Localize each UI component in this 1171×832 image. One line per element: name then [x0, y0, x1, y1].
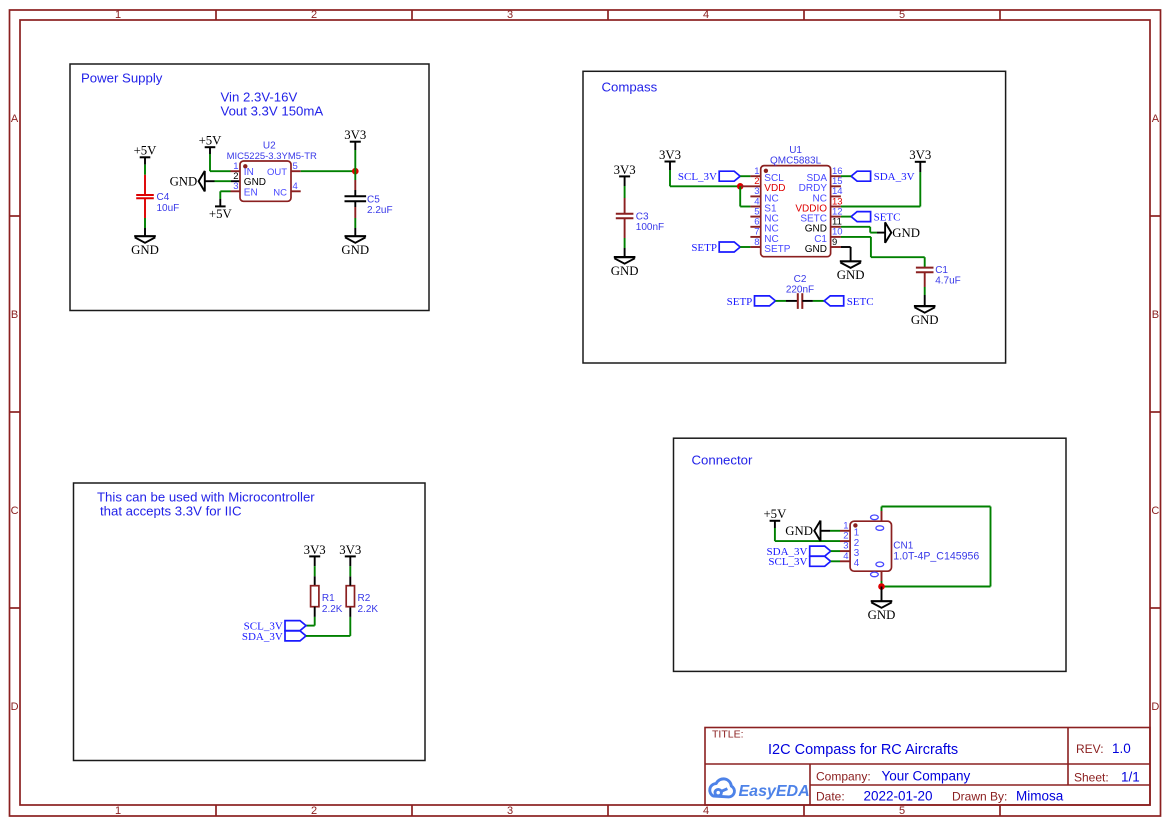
svg-text:Drawn By:: Drawn By: — [952, 790, 1007, 804]
svg-text:SDA_3V: SDA_3V — [242, 631, 283, 643]
svg-text:1.0T-4P_C145956: 1.0T-4P_C145956 — [893, 551, 979, 563]
wire 3V3 to U1 VDDIO — [841, 172, 920, 207]
svg-text:1.0: 1.0 — [1112, 741, 1131, 756]
svg-text:5: 5 — [899, 9, 905, 21]
svg-text:C: C — [1151, 505, 1159, 517]
svg-text:+5V: +5V — [134, 144, 158, 158]
svg-text:OUT: OUT — [267, 167, 287, 178]
ground GND (C3) — [611, 257, 639, 278]
ground GND (CN1 pin1) — [785, 521, 820, 542]
svg-text:that accepts 3.3V for IIC: that accepts 3.3V for IIC — [100, 503, 242, 518]
svg-text:SETP: SETP — [691, 242, 717, 254]
capacitor C5 2.2uF — [345, 180, 393, 218]
title block frame — [705, 728, 1150, 806]
svg-text:EN: EN — [244, 187, 258, 198]
svg-text:Mimosa: Mimosa — [1016, 789, 1064, 804]
ground GND (U1 pin9) — [837, 261, 865, 282]
annotation: Power Supply — [81, 71, 163, 86]
svg-text:2: 2 — [311, 9, 317, 21]
svg-text:I2C Compass for RC Aircrafts: I2C Compass for RC Aircrafts — [768, 742, 958, 758]
net flag SDA_3V (CN1 pin3) — [767, 546, 831, 558]
title block Date / Drawn By — [816, 789, 1064, 804]
wire SCL_3V to U1 — [740, 175, 750, 177]
ruler row labels — [11, 113, 1160, 713]
svg-text:8: 8 — [754, 237, 759, 248]
svg-text:220nF: 220nF — [786, 285, 814, 296]
svg-text:4.7uF: 4.7uF — [935, 276, 961, 287]
wire U1 GND pin11 — [841, 227, 885, 233]
svg-text:C3: C3 — [636, 211, 649, 222]
capacitor C3 100nF — [616, 198, 664, 238]
wire node to U1 S1 — [740, 186, 750, 206]
net flag SETC (C2 right) — [824, 296, 873, 308]
svg-text:EasyEDA: EasyEDA — [739, 783, 810, 800]
annotation: Connector — [692, 453, 753, 468]
EasyEDA logo — [710, 779, 810, 800]
wire C5 to GND — [354, 218, 356, 236]
svg-text:3V3: 3V3 — [909, 148, 931, 162]
node junction (CN1 pad/GND) — [878, 583, 885, 590]
svg-text:SDA_3V: SDA_3V — [874, 171, 915, 183]
wire SETP to C2 — [776, 300, 798, 302]
net flag SCL_3V (CN1 pin4) — [768, 556, 830, 568]
svg-text:B: B — [1152, 309, 1159, 321]
wire R2 to 3V3 — [349, 566, 351, 576]
wire C2 to SETC — [802, 300, 824, 302]
svg-text:4: 4 — [843, 551, 848, 562]
svg-text:MIC5225-3.3YM5-TR: MIC5225-3.3YM5-TR — [227, 151, 317, 162]
svg-text:4: 4 — [703, 805, 709, 817]
wire U1 GND pin9 — [841, 247, 851, 261]
svg-text:100nF: 100nF — [636, 222, 664, 233]
power flag 3V3 (R2) — [339, 543, 361, 566]
annotation: microcontroller note — [97, 490, 315, 519]
connector section box — [674, 438, 1067, 671]
svg-text:GND: GND — [911, 313, 939, 327]
net flag SETP (C2 left) — [727, 296, 776, 308]
svg-text:C2: C2 — [794, 274, 807, 285]
wire 3V3 to R1 — [314, 566, 316, 576]
title block Company — [816, 769, 971, 784]
svg-text:TITLE:: TITLE: — [712, 729, 744, 741]
net flag SDA_3V (U1 SDA) — [851, 171, 915, 183]
svg-text:Date:: Date: — [816, 790, 845, 804]
svg-text:9: 9 — [832, 237, 837, 248]
resistor R1 2.2K — [311, 576, 343, 617]
svg-text:10uF: 10uF — [157, 203, 180, 214]
wire U1 C1 pin10 to capacitor — [841, 237, 925, 268]
wire node to GND — [881, 587, 883, 601]
wire node to C5 — [354, 171, 356, 180]
net flag SETP (U1 SETP) — [691, 242, 740, 254]
title block TITLE — [712, 729, 958, 759]
wire SCL_3V to CN1 — [831, 560, 840, 562]
svg-text:2022-01-20: 2022-01-20 — [864, 789, 933, 804]
net flag SETC (U1 SETC) — [851, 212, 900, 224]
wire +5V to CN1 pin2 — [775, 528, 840, 541]
ground GND (CN1) — [868, 601, 896, 622]
svg-text:D: D — [11, 701, 19, 713]
net flag SCL_3V (pullup) — [244, 621, 306, 633]
compass section box — [583, 71, 1006, 363]
svg-text:Power Supply: Power Supply — [81, 71, 163, 86]
node junction (VDD/S1) — [737, 183, 744, 190]
svg-text:Sheet:: Sheet: — [1074, 770, 1109, 784]
wire SETP to U1 — [740, 246, 750, 248]
capacitor C1 4.7uF — [916, 265, 961, 287]
svg-text:GND: GND — [131, 243, 159, 257]
ground GND (C4) — [131, 236, 159, 257]
svg-text:3V3: 3V3 — [344, 128, 366, 142]
ruler column labels — [115, 9, 905, 817]
ground GND (U2 pin2) — [170, 171, 205, 192]
svg-text:A: A — [11, 113, 19, 125]
power flag +5V (U2 pin1) — [199, 134, 223, 154]
svg-text:SETP: SETP — [764, 244, 790, 255]
svg-text:+5V: +5V — [199, 134, 223, 148]
svg-text:GND: GND — [170, 175, 198, 189]
svg-text:SCL_3V: SCL_3V — [768, 556, 807, 568]
regulator U2 MIC5225-3.3YM5-TR — [227, 140, 317, 201]
wire +5V to U2 EN — [220, 191, 230, 199]
svg-text:2.2K: 2.2K — [322, 604, 343, 615]
svg-text:C4: C4 — [157, 192, 170, 203]
svg-text:REV:: REV: — [1076, 742, 1104, 756]
title block Sheet — [1074, 769, 1140, 784]
svg-text:Vout 3.3V 150mA: Vout 3.3V 150mA — [221, 103, 324, 118]
svg-text:SETP: SETP — [727, 296, 753, 308]
power flag +5V (C4 branch) — [134, 144, 158, 165]
power flag 3V3 (C3 branch) — [614, 163, 636, 186]
svg-text:GND: GND — [785, 524, 813, 538]
svg-text:2: 2 — [311, 805, 317, 817]
svg-text:C1: C1 — [935, 265, 948, 276]
svg-text:4: 4 — [703, 9, 709, 21]
svg-text:1: 1 — [115, 9, 121, 21]
wire CN1 pad loop — [882, 507, 991, 587]
title block REV — [1076, 741, 1131, 756]
svg-text:3: 3 — [507, 805, 513, 817]
svg-text:3V3: 3V3 — [304, 543, 326, 557]
resistor R2 2.2K — [346, 576, 378, 617]
svg-text:GND: GND — [892, 226, 920, 240]
wire +5V to U2 IN — [210, 154, 231, 171]
svg-text:D: D — [1151, 701, 1159, 713]
power flag 3V3 (U1 VDD) — [659, 148, 681, 170]
svg-text:5: 5 — [293, 161, 298, 172]
power flag +5V (CN1) — [763, 507, 787, 528]
wire SDA_3V to CN1 — [831, 550, 840, 552]
svg-text:R1: R1 — [322, 593, 335, 604]
svg-text:4: 4 — [293, 181, 298, 192]
svg-text:QMC5883L: QMC5883L — [770, 155, 822, 166]
svg-text:2.2K: 2.2K — [358, 604, 379, 615]
power flag 3V3 (R1) — [304, 543, 326, 566]
svg-text:Vin 2.3V-16V: Vin 2.3V-16V — [221, 90, 298, 105]
wire C4 to GND — [144, 218, 146, 236]
svg-text:Compass: Compass — [602, 80, 658, 95]
svg-text:GND: GND — [341, 243, 369, 257]
svg-text:This can be used with Microcon: This can be used with Microcontroller — [97, 490, 315, 505]
net flag SDA_3V (pullup) — [242, 631, 306, 643]
wire C3 to GND — [624, 238, 626, 257]
svg-text:GND: GND — [611, 264, 639, 278]
power flag 3V3 (U1 VDDIO) — [909, 148, 931, 172]
annotation: Compass — [602, 80, 658, 95]
svg-text:C: C — [11, 505, 19, 517]
wire GND to CN1 pin1 — [821, 530, 841, 532]
capacitor C2 220nF — [786, 274, 814, 309]
svg-text:SCL_3V: SCL_3V — [678, 171, 717, 183]
svg-text:+5V: +5V — [209, 207, 233, 221]
power flag 3V3 (power supply out) — [344, 128, 366, 150]
net flag SCL_3V (U1 SCL) — [678, 171, 740, 183]
annotation: Vin/Vout note — [221, 90, 324, 119]
svg-text:3: 3 — [233, 181, 238, 192]
wire +5V to C4 — [144, 165, 146, 175]
svg-text:1: 1 — [115, 805, 121, 817]
svg-text:2.2uF: 2.2uF — [367, 205, 393, 216]
connector CN1 1.0T-4P_C145956 — [840, 511, 979, 581]
svg-text:GND: GND — [837, 268, 865, 282]
svg-text:Company:: Company: — [816, 770, 871, 784]
ground GND (C1) — [911, 306, 939, 327]
microcontroller note section box — [74, 483, 426, 761]
svg-text:NC: NC — [273, 187, 287, 198]
svg-text:4: 4 — [854, 558, 860, 569]
power supply section box — [70, 64, 429, 311]
ground GND (U1 pin11) — [885, 222, 920, 243]
wire U2 OUT to 3V3 node — [301, 170, 356, 172]
svg-text:3: 3 — [507, 9, 513, 21]
wire U1 SETC to flag — [841, 216, 851, 218]
svg-text:U1: U1 — [789, 145, 802, 156]
power flag +5V (U2 pin3) — [209, 199, 233, 221]
wire 3V3 to node — [354, 150, 356, 171]
svg-text:3V3: 3V3 — [339, 543, 361, 557]
svg-text:Connector: Connector — [692, 453, 753, 468]
wire C1 to GND — [924, 287, 926, 306]
wire R1 to SCL_3V — [306, 617, 315, 626]
wire GND to U2 GND — [205, 180, 240, 182]
svg-text:SETC: SETC — [847, 296, 874, 308]
node junction (OUT/3V3/C5) — [352, 168, 359, 175]
wire 3V3 to C3 — [624, 186, 626, 198]
svg-text:Your Company: Your Company — [882, 769, 971, 784]
wire 3V3 to VDD node — [670, 170, 740, 186]
svg-text:U2: U2 — [263, 140, 276, 151]
compass IC U1 QMC5883L — [742, 145, 843, 257]
capacitor C4 10uF — [136, 175, 179, 218]
svg-text:3V3: 3V3 — [659, 148, 681, 162]
svg-text:5: 5 — [899, 805, 905, 817]
svg-text:R2: R2 — [358, 593, 371, 604]
svg-text:C5: C5 — [367, 194, 380, 205]
svg-text:1/1: 1/1 — [1121, 769, 1140, 784]
svg-text:GND: GND — [805, 244, 827, 255]
svg-text:GND: GND — [868, 608, 896, 622]
svg-text:3V3: 3V3 — [614, 163, 636, 177]
svg-text:SETC: SETC — [874, 212, 901, 224]
wire U1 SDA to flag — [841, 175, 851, 177]
ground GND (C5) — [341, 236, 369, 257]
svg-text:+5V: +5V — [763, 507, 787, 521]
svg-text:B: B — [11, 309, 18, 321]
svg-text:A: A — [1152, 113, 1160, 125]
wire SDA_3V to R2 — [306, 617, 350, 636]
